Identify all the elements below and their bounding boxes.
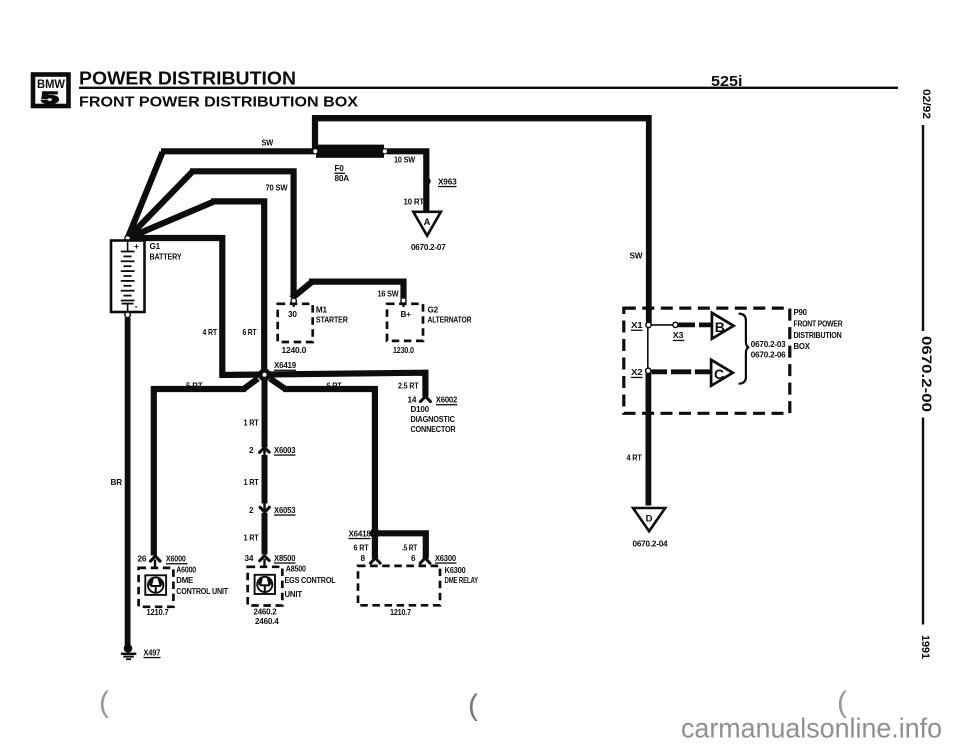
svg-text:K6300: K6300: [445, 566, 467, 575]
svg-text:8: 8: [361, 554, 366, 563]
svg-text:02/92: 02/92: [920, 89, 932, 119]
svg-text:BR: BR: [111, 478, 123, 487]
wire: battery minus BR wire: [125, 318, 131, 646]
svg-text:(: (: [468, 689, 478, 722]
svg-text:0670.2-03: 0670.2-03: [751, 340, 787, 349]
node X2: [646, 368, 651, 373]
svg-text:(: (: [99, 686, 109, 719]
svg-text:30: 30: [288, 310, 297, 319]
svg-text:70 SW: 70 SW: [266, 184, 288, 193]
svg-text:M1: M1: [316, 306, 328, 315]
svg-text:UNIT: UNIT: [285, 590, 303, 599]
svg-text:G2: G2: [428, 306, 439, 315]
svg-text:.5 RT: .5 RT: [184, 381, 203, 390]
svg-text:1 RT: 1 RT: [244, 419, 259, 428]
svg-text:16 SW: 16 SW: [378, 290, 399, 299]
svg-text:34: 34: [245, 554, 254, 563]
fuse terminal right: [382, 149, 387, 154]
svg-text:6 RT: 6 RT: [327, 381, 342, 390]
svg-text:6 RT: 6 RT: [243, 328, 257, 337]
battery node bottom: [125, 312, 131, 318]
svg-text:X497: X497: [144, 648, 161, 657]
svg-text:1 RT: 1 RT: [244, 534, 259, 543]
svg-text:4 RT: 4 RT: [203, 328, 218, 337]
svg-text:BATTERY: BATTERY: [150, 252, 183, 261]
svg-text:X6053: X6053: [274, 506, 296, 515]
bold dashed wire X3 to B: [678, 322, 711, 327]
svg-text:1210.7: 1210.7: [147, 608, 170, 617]
wire: battery to fuse feed: [128, 151, 314, 238]
DME pin 26 X6000: [151, 556, 161, 561]
svg-text:10 SW: 10 SW: [394, 156, 415, 165]
svg-text:X963: X963: [438, 177, 457, 186]
svg-text:B+: B+: [401, 310, 412, 319]
svg-text:DIAGNOSTIC: DIAGNOSTIC: [411, 415, 456, 424]
DME relay K6300 box: [358, 566, 440, 605]
svg-text:1210.7: 1210.7: [390, 608, 412, 617]
alternator G2 box: [387, 304, 423, 341]
svg-text:A6000: A6000: [176, 566, 196, 575]
svg-text:1240.0: 1240.0: [282, 346, 307, 355]
pin 2 X6003: [260, 447, 270, 452]
svg-text:2460.4: 2460.4: [255, 617, 279, 626]
pin 2 X6053: [260, 507, 269, 512]
pin 14 X6002 diagnostic connector: [420, 396, 430, 401]
svg-text:0670.2-00: 0670.2-00: [919, 336, 935, 412]
svg-text:G1: G1: [150, 242, 161, 251]
bold dashed wire X2 to C: [652, 369, 712, 374]
DME control unit A6000 box: [139, 568, 174, 607]
svg-text:6 RT: 6 RT: [354, 543, 369, 552]
svg-text:1991: 1991: [919, 635, 931, 659]
P90 front power distribution box: [624, 308, 790, 413]
svg-text:STARTER: STARTER: [316, 316, 348, 325]
svg-text:+: +: [134, 241, 139, 251]
svg-text:X6003: X6003: [274, 446, 296, 455]
svg-text:B: B: [715, 319, 725, 335]
svg-text:26: 26: [138, 555, 147, 564]
svg-text:C: C: [714, 366, 724, 382]
battery internals: [121, 241, 135, 313]
svg-text:DME: DME: [176, 576, 193, 585]
fuse terminal left: [313, 149, 318, 154]
svg-text:X6418: X6418: [349, 529, 372, 538]
svg-text:P90: P90: [794, 308, 808, 317]
svg-text:SW: SW: [630, 251, 643, 260]
pin 8 relay: [370, 558, 380, 563]
svg-text:X2: X2: [631, 368, 643, 377]
wire: battery fan line 4 (4 RT): [128, 235, 223, 375]
node X1: [646, 322, 651, 327]
svg-text:-: -: [135, 302, 138, 312]
wire: top bus: [315, 115, 649, 121]
svg-text:2: 2: [249, 506, 254, 515]
svg-text:80A: 80A: [335, 174, 350, 183]
DME inner icon: [145, 575, 166, 595]
pin 34 X8500: [260, 556, 270, 561]
pin 6 X6300: [420, 558, 430, 563]
svg-text:EGS CONTROL: EGS CONTROL: [285, 576, 336, 585]
svg-text:X6419: X6419: [274, 361, 297, 370]
ground X497: [121, 644, 161, 659]
starter M1 box: [278, 304, 313, 342]
triangle B: [712, 313, 734, 339]
svg-text:carmanualsonline.info: carmanualsonline.info: [681, 713, 942, 744]
svg-text:X3: X3: [673, 331, 684, 340]
node X3: [673, 322, 678, 327]
svg-text:BOX: BOX: [794, 342, 811, 351]
thin link X1-X3: [650, 324, 673, 326]
svg-text:2460.2: 2460.2: [254, 608, 278, 617]
thin link X1-X2: [647, 325, 649, 371]
sidebar rule upper: [922, 125, 924, 331]
svg-text:ALTERNATOR: ALTERNATOR: [428, 316, 472, 325]
wire: X2 down through box to triangle D: [646, 373, 652, 506]
svg-text:POWER DISTRIBUTION: POWER DISTRIBUTION: [79, 69, 296, 89]
EGS control unit A8500 box: [248, 567, 283, 606]
svg-text:2: 2: [249, 446, 254, 455]
brace: [739, 314, 750, 384]
svg-text:0670.2-07: 0670.2-07: [411, 243, 446, 252]
svg-text:X6300: X6300: [435, 554, 457, 563]
fuse F0 bar: [316, 145, 384, 158]
svg-text:DISTRIBUTION: DISTRIBUTION: [794, 331, 843, 340]
svg-text:F0: F0: [335, 164, 345, 173]
svg-text:1 RT: 1 RT: [244, 478, 259, 487]
wire: fuse to X963 drop: [387, 148, 426, 211]
svg-text:CONTROL UNIT: CONTROL UNIT: [176, 587, 228, 596]
svg-text:10 RT: 10 RT: [404, 197, 425, 206]
wire: X6418 to relay pin 6: [375, 530, 426, 558]
wire: fuse drop connector: [312, 115, 318, 151]
node X6418: [370, 528, 380, 538]
svg-text:A: A: [424, 217, 431, 228]
svg-text:D100: D100: [411, 405, 430, 414]
wire: SW vertical right: [646, 115, 652, 325]
svg-text:2.5 RT: 2.5 RT: [398, 381, 419, 390]
wire: starter-alternator bus: [309, 279, 404, 299]
EGS inner icon: [255, 575, 275, 594]
svg-text:CONNECTOR: CONNECTOR: [411, 425, 457, 434]
wire: battery fan line 3 (6 RT): [128, 198, 267, 372]
svg-text:1230.0: 1230.0: [393, 346, 414, 355]
battery node top: [125, 236, 131, 242]
svg-text:0670.2-06: 0670.2-06: [751, 351, 787, 360]
svg-text:DME RELAY: DME RELAY: [445, 576, 479, 585]
svg-text:X1: X1: [631, 321, 643, 330]
triangle C: [711, 360, 733, 386]
svg-text:X6002: X6002: [436, 396, 458, 405]
header rule: [79, 87, 898, 89]
wire: battery fan line 2 to starter: [128, 168, 312, 298]
alternator node: [401, 298, 406, 303]
junction X6419: [219, 370, 425, 397]
svg-text:D: D: [646, 514, 653, 525]
svg-text:X8500: X8500: [274, 554, 296, 563]
svg-text:14: 14: [408, 396, 417, 405]
sidebar rule lower: [922, 418, 924, 625]
svg-text:0670.2-04: 0670.2-04: [633, 540, 669, 549]
svg-text:4 RT: 4 RT: [627, 453, 642, 462]
svg-text:FRONT POWER DISTRIBUTION BOX: FRONT POWER DISTRIBUTION BOX: [79, 93, 358, 110]
BMW logo box: [33, 75, 69, 108]
node X963: [423, 178, 430, 185]
svg-text:SW: SW: [262, 139, 274, 148]
starter node: [291, 298, 296, 303]
svg-text:FRONT POWER: FRONT POWER: [794, 319, 843, 328]
svg-text:.5 RT: .5 RT: [402, 543, 417, 552]
triangle D: [633, 508, 665, 531]
svg-text:5: 5: [41, 89, 59, 108]
svg-text:A8500: A8500: [286, 565, 307, 574]
svg-text:X6000: X6000: [166, 555, 186, 564]
svg-text:6: 6: [411, 554, 416, 563]
triangle A: [413, 212, 441, 236]
battery G1 box: [111, 241, 145, 313]
